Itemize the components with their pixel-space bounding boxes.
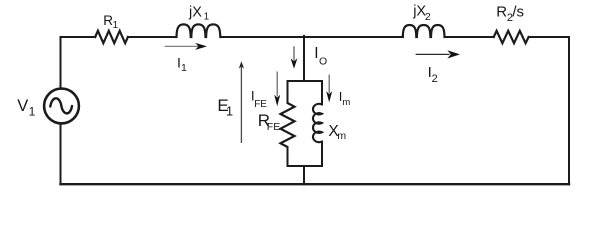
wire box bottom to bottom rail <box>303 166 305 184</box>
label R1 <box>103 13 118 31</box>
svg-text:I: I <box>314 45 318 62</box>
label E1 <box>217 96 233 119</box>
arrow Im <box>326 75 332 103</box>
arrow IFE <box>274 72 280 107</box>
resistor R2/s <box>494 31 529 43</box>
label jX1 <box>188 5 210 23</box>
magnetizing branch box <box>288 81 323 166</box>
wire bottom rail <box>61 183 570 185</box>
svg-text:1: 1 <box>226 104 233 119</box>
arrow I2 <box>416 50 460 58</box>
wire top rail segment B (R1 to jX1) <box>128 36 177 38</box>
label jX2 <box>412 4 431 24</box>
label V1 <box>17 97 35 119</box>
wire top rail segment A (left corner to R1) <box>61 36 96 38</box>
wire top rail segment E (R2/s to right corner) <box>529 36 569 38</box>
label I1 <box>177 55 187 74</box>
label RFE <box>258 111 281 133</box>
svg-text:jX: jX <box>188 5 202 21</box>
wire left vertical lower <box>60 124 62 184</box>
label R2/s <box>496 4 524 24</box>
svg-text:1: 1 <box>29 105 36 119</box>
wire left vertical upper <box>60 37 62 89</box>
voltage source V1 <box>44 89 79 124</box>
svg-text:FE: FE <box>254 99 267 110</box>
svg-text:2: 2 <box>432 73 438 85</box>
inductor Xm (vertical loops, right side of box) <box>313 104 322 142</box>
wire top rail segment C (jX1 to center node to jX2) <box>221 36 403 38</box>
label I2 <box>428 64 438 85</box>
wire top rail segment D (jX2 to R2/s) <box>445 36 494 38</box>
inductor jX2 <box>403 25 445 37</box>
svg-text:V: V <box>17 97 28 115</box>
svg-text:O: O <box>319 55 327 67</box>
svg-text:/s: /s <box>512 4 524 21</box>
svg-text:2: 2 <box>425 11 431 23</box>
svg-text:m: m <box>342 97 350 108</box>
svg-text:1: 1 <box>181 62 187 74</box>
node center junction wire (top rail to box) <box>303 36 305 81</box>
label IFE <box>251 89 267 110</box>
resistor R1 <box>95 31 128 43</box>
svg-text:1: 1 <box>204 12 210 23</box>
svg-text:1: 1 <box>113 20 119 31</box>
arrow I1 <box>165 43 207 50</box>
arrow E1 (induced EMF reference) <box>239 61 244 143</box>
label IO <box>314 45 327 67</box>
label Im <box>339 89 351 108</box>
inductor jX1 <box>177 24 221 37</box>
svg-text:FE: FE <box>267 121 280 133</box>
wire right vertical <box>568 37 570 184</box>
arrow IO <box>291 46 298 68</box>
label Xm <box>328 123 346 142</box>
resistor RFE (vertical zigzag, left side of box) <box>281 103 295 147</box>
svg-text:m: m <box>337 130 346 142</box>
svg-text:R: R <box>496 4 507 21</box>
